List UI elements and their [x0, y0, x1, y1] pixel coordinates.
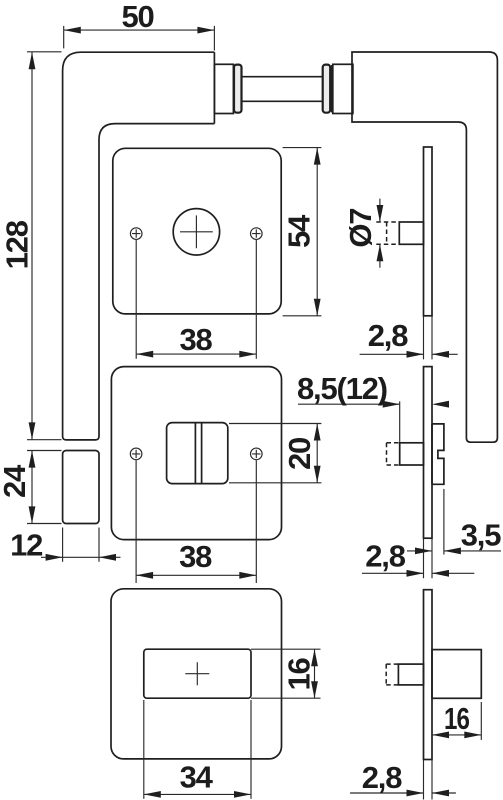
svg-text:20: 20: [282, 438, 317, 470]
right lever handle (front view): [352, 52, 497, 442]
key rosette side plate: [424, 147, 433, 316]
svg-text:Ø7: Ø7: [343, 209, 378, 248]
dimension 2,8 (middle): [362, 539, 474, 577]
screw left (WC rosette): [130, 448, 142, 460]
dimension 38 (top rosette): [136, 240, 256, 359]
right collar ring: [323, 65, 331, 113]
svg-text:16: 16: [282, 658, 317, 691]
blind knob cross: [185, 662, 209, 685]
plate edge extensions (middle): [424, 538, 433, 578]
key rosette (front view): [113, 148, 281, 314]
dimension 16 (front): [251, 649, 321, 698]
dimension 8,5(12): [297, 371, 449, 442]
svg-text:16: 16: [444, 701, 470, 736]
spindle shaft: [242, 77, 323, 102]
dimension 2,8 (top): [360, 318, 458, 358]
svg-text:12: 12: [10, 528, 42, 563]
left handle neck: [214, 64, 233, 113]
svg-text:128: 128: [0, 220, 35, 269]
spindle stub (middle, hidden): [387, 443, 400, 465]
dimension 128: [0, 52, 62, 440]
plate edge extensions (top): [424, 316, 433, 360]
dimension 54: [282, 148, 322, 316]
svg-text:8,5(12): 8,5(12): [297, 371, 387, 406]
dimension 50: [64, 0, 215, 51]
svg-text:3,5: 3,5: [461, 518, 501, 553]
WC rosette side plate: [424, 367, 433, 539]
dimension 3,5: [407, 489, 501, 555]
spindle stub (top, solid): [399, 222, 423, 244]
left lever handle (front view): [63, 52, 215, 440]
svg-text:2,8: 2,8: [365, 539, 405, 574]
svg-text:38: 38: [179, 322, 212, 357]
svg-text:34: 34: [180, 760, 214, 795]
svg-text:24: 24: [0, 464, 32, 498]
cylinder cross: [180, 215, 213, 248]
dimension 16 (side): [432, 701, 481, 740]
spindle stub (bottom, hidden): [386, 664, 398, 685]
svg-text:2,8: 2,8: [368, 318, 408, 353]
screw left (top rosette): [130, 228, 142, 240]
blind rosette side plate: [424, 590, 433, 760]
dimension 34: [144, 700, 251, 799]
dimension 20: [229, 424, 321, 483]
plate edge extensions (bottom): [424, 760, 433, 800]
spindle stub (top, hidden): [376, 222, 399, 244]
thumb-turn side profile: [432, 424, 444, 484]
blind rosette (front view): [111, 589, 282, 759]
svg-text:2,8: 2,8: [362, 760, 402, 795]
dimension 12: [10, 528, 120, 563]
grip lower segment: [63, 451, 99, 524]
screw right (top rosette): [250, 228, 262, 240]
screw right (WC rosette): [250, 448, 262, 460]
dimension 2,8 (bottom): [350, 760, 456, 796]
spindle stub (bottom, solid): [398, 664, 423, 685]
spindle stub (middle, solid): [400, 443, 424, 465]
blind knob plate: [144, 649, 251, 698]
dimension 38 (WC rosette): [136, 460, 256, 583]
cylinder hole circle: [173, 209, 219, 255]
left collar ring: [234, 65, 242, 113]
svg-text:50: 50: [121, 0, 153, 34]
svg-text:38: 38: [179, 539, 212, 574]
dimension 24: [0, 451, 62, 524]
dimension Ø7: [343, 199, 383, 268]
svg-text:54: 54: [282, 214, 317, 248]
WC rosette (front view): [111, 367, 281, 540]
right handle neck: [332, 64, 353, 113]
blind knob side profile: [432, 650, 481, 699]
thumb-turn: [167, 423, 228, 484]
